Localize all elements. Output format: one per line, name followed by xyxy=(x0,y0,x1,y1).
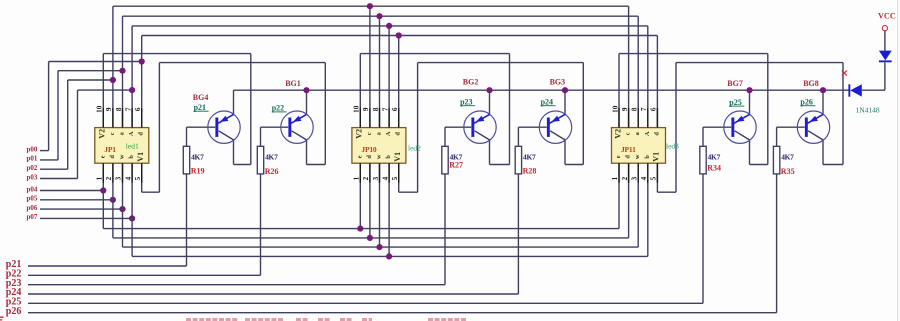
svg-text:3: 3 xyxy=(630,176,638,180)
svg-text:4: 4 xyxy=(124,176,132,180)
junction p00-JP1 pin xyxy=(139,58,145,64)
svg-text:BG1: BG1 xyxy=(285,79,301,88)
svg-text:w: w xyxy=(118,154,125,159)
wire JP10 pin5 bracket bottom xyxy=(399,191,418,193)
connector JP1 (LED display header) xyxy=(95,128,149,164)
svg-text:V1: V1 xyxy=(652,152,661,162)
wire JP1 pin5 over-wire xyxy=(159,62,325,64)
svg-text:8: 8 xyxy=(630,107,638,111)
wire BG4 collector U bottom xyxy=(234,164,251,166)
resistor R27 4K7 xyxy=(442,146,448,174)
wire base of BG3 xyxy=(518,126,546,128)
svg-text:led3: led3 xyxy=(666,142,679,151)
svg-text:R27: R27 xyxy=(449,160,463,169)
wire JP11 pin3 vertical down xyxy=(637,163,639,247)
resistor R35 4K7 xyxy=(773,146,779,174)
pin 7 stub of JP11 xyxy=(647,108,649,128)
svg-text:R28: R28 xyxy=(523,166,537,175)
wire collector riser x=325.3 xyxy=(324,63,326,165)
wire JP10 pin3 vertical down xyxy=(379,163,381,247)
wire JP10 pin5 over-wire xyxy=(418,62,584,64)
svg-text:9: 9 xyxy=(621,107,629,111)
wire p24 horizontal xyxy=(28,293,518,295)
pin 2 stub of JP11 xyxy=(628,163,630,183)
wire lower bus 1 (segment) xyxy=(103,228,619,230)
transistor BG3 (PNP) xyxy=(539,111,571,143)
svg-text:c: c xyxy=(109,132,116,135)
svg-text:5: 5 xyxy=(650,176,658,180)
wire p06 horizontal xyxy=(40,208,123,210)
wire JP11 pin5 bracket riser xyxy=(675,63,677,193)
svg-text:7: 7 xyxy=(124,107,132,111)
pin 6 stub of JP11 xyxy=(656,108,658,128)
wire JP1 pin4 vertical down xyxy=(131,163,133,256)
svg-text:d: d xyxy=(138,132,145,136)
resistor R26 4K7 xyxy=(257,146,263,174)
pin 10 stub of JP10 xyxy=(359,108,361,128)
wire R27 bottom lead xyxy=(444,174,446,285)
svg-text:p23: p23 xyxy=(460,97,472,106)
pin 10 stub of JP1 xyxy=(102,108,104,128)
svg-text:2: 2 xyxy=(105,176,113,180)
wire BG4 collector drop xyxy=(233,140,235,165)
junction p04-JP1 pin1 xyxy=(100,187,106,193)
svg-text:e: e xyxy=(99,155,106,158)
caption text (clipped at bottom) xyxy=(186,318,191,321)
wire segment-bus c (top bus 3) xyxy=(132,25,648,27)
wire collector riser x=843.0 xyxy=(842,63,844,165)
svg-text:p00: p00 xyxy=(27,145,38,153)
svg-text:p24: p24 xyxy=(541,97,553,106)
wire segment-bus a (top bus 1) xyxy=(113,5,629,7)
wire p05 horizontal xyxy=(40,199,113,201)
svg-text:p01: p01 xyxy=(27,155,38,163)
svg-text:4: 4 xyxy=(640,176,648,180)
wire collector riser x=767.8 xyxy=(767,54,769,165)
pin 1 stub of JP1 xyxy=(102,163,104,183)
wire BG7 collector U bottom xyxy=(750,164,768,166)
svg-text:p26: p26 xyxy=(800,97,812,106)
wire JP1 pin7 vertical from bus 3 xyxy=(131,26,133,128)
junction lower bus-JP10 pin1 xyxy=(357,226,363,232)
wire JP10 pin4 vertical down xyxy=(388,163,390,256)
wire p25 horizontal xyxy=(28,302,703,304)
pin 7 stub of JP1 xyxy=(131,108,133,128)
wire JP10 pin7 vertical from bus 3 xyxy=(388,26,390,128)
pin 5 stub of JP10 xyxy=(398,163,400,183)
junction p05-JP1 pin2 xyxy=(110,197,116,203)
svg-text:d: d xyxy=(625,155,632,159)
wire VCC to diode D1 xyxy=(884,31,886,51)
svg-text:p03: p03 xyxy=(27,173,38,181)
wire JP11 pin1 vertical down xyxy=(618,163,620,228)
svg-text:VCC: VCC xyxy=(878,12,896,21)
wire collector riser x=509.5 xyxy=(509,54,511,165)
svg-text:b: b xyxy=(128,155,135,159)
wire segment-bus d (top bus 4) xyxy=(142,35,658,37)
svg-text:V1: V1 xyxy=(393,152,402,162)
svg-text:5: 5 xyxy=(134,176,142,180)
transistor BG4 (PNP) xyxy=(208,111,240,143)
wire R35 bottom lead xyxy=(776,174,778,313)
connector JP11 (LED display header) xyxy=(612,128,666,164)
svg-text:JP1: JP1 xyxy=(104,145,116,154)
wire R28 bottom lead xyxy=(517,174,519,294)
svg-text:JP11: JP11 xyxy=(621,145,636,154)
svg-text:6: 6 xyxy=(134,107,142,111)
wire JP10 pin6 vertical from bus 4 xyxy=(398,36,400,128)
junction bus2-JP10 xyxy=(376,13,382,19)
svg-text:R19: R19 xyxy=(191,167,205,176)
wire base of BG2 xyxy=(445,126,471,128)
svg-text:1: 1 xyxy=(611,176,619,180)
wire JP1 pin5 bracket bottom xyxy=(142,191,160,193)
pin 8 stub of JP11 xyxy=(637,108,639,128)
pin 1 stub of JP11 xyxy=(618,163,620,183)
svg-text:c: c xyxy=(625,132,632,135)
wire JP11 pin10 to collector riser xyxy=(619,53,768,55)
svg-text:b: b xyxy=(385,155,392,159)
svg-text:d: d xyxy=(653,132,660,136)
wire BG3 emitter riser xyxy=(564,90,566,114)
wire JP11 pin5 bracket bottom xyxy=(657,191,676,193)
wire BG1 emitter riser xyxy=(306,90,308,114)
svg-text:p22: p22 xyxy=(272,104,284,113)
wire BG8 collector U bottom xyxy=(823,164,843,166)
svg-text:6: 6 xyxy=(391,107,399,111)
wire collector riser x=250.8 xyxy=(250,54,252,165)
svg-text:A: A xyxy=(644,131,651,136)
wire BG1 collector drop xyxy=(306,140,308,165)
junction emitter bus-BG1 xyxy=(303,87,309,93)
svg-text:V2: V2 xyxy=(355,129,364,139)
wire BG8 emitter riser xyxy=(822,90,824,114)
svg-text:10: 10 xyxy=(353,105,361,113)
wire p02 horizontal xyxy=(40,168,68,170)
wire p21 horizontal xyxy=(28,265,187,267)
svg-text:9: 9 xyxy=(362,107,370,111)
wire emitter bus to diode xyxy=(234,89,850,91)
wire p23 horizontal xyxy=(28,284,445,286)
wire R35 top lead xyxy=(776,127,778,146)
svg-text:8: 8 xyxy=(115,107,123,111)
resistor R34 4K7 xyxy=(700,146,706,174)
pin 2 stub of JP1 xyxy=(112,163,114,183)
pin 5 stub of JP1 xyxy=(141,163,143,183)
junction lower bus-JP10 pin4 xyxy=(386,253,392,259)
pin 6 stub of JP10 xyxy=(398,108,400,128)
svg-text:1: 1 xyxy=(353,176,361,180)
wire lower bus 3 (segment) xyxy=(123,246,639,248)
svg-text:p04: p04 xyxy=(27,185,38,193)
transistor BG8 (PNP) xyxy=(797,111,829,143)
wire D1 to D2 anode xyxy=(862,89,885,91)
svg-text:w: w xyxy=(375,154,382,159)
wire p02 riser xyxy=(67,80,69,169)
svg-text:4K7: 4K7 xyxy=(265,152,278,161)
wire JP1 pin5 vertical xyxy=(141,163,143,192)
svg-text:p05: p05 xyxy=(27,195,38,203)
svg-text:7: 7 xyxy=(640,107,648,111)
svg-text:1N4148: 1N4148 xyxy=(856,106,880,115)
svg-text:p25: p25 xyxy=(729,98,741,107)
wire BG3 collector U bottom xyxy=(565,164,583,166)
svg-text:2: 2 xyxy=(362,176,370,180)
power port VCC xyxy=(878,12,896,31)
wire R19 bottom lead xyxy=(186,174,188,266)
wire JP11 pin4 vertical down xyxy=(647,163,649,256)
svg-text:8: 8 xyxy=(372,107,380,111)
wire JP10 pin10 vertical xyxy=(359,54,361,128)
junction emitter bus-BG7 xyxy=(746,87,752,93)
junction p03-JP1 pin xyxy=(129,87,135,93)
wire R34 top lead xyxy=(702,127,704,146)
wire JP10 pin2 vertical down xyxy=(369,163,371,238)
wire D1 cathode down xyxy=(884,62,886,90)
wire JP10 pin10 to collector riser xyxy=(360,53,509,55)
pin 9 stub of JP1 xyxy=(112,108,114,128)
wire base of BG4 xyxy=(187,126,216,128)
wire BG2 collector U bottom xyxy=(490,164,510,166)
wire lower bus 4 (segment) xyxy=(132,255,648,257)
wire R28 top lead xyxy=(517,127,519,146)
wire p02 upper run xyxy=(68,79,113,81)
wire JP1 pin5 bracket riser xyxy=(158,63,160,193)
wire JP1 pin8 vertical from bus 2 xyxy=(122,16,124,127)
wire BG3 collector drop xyxy=(564,140,566,165)
wire base of BG7 xyxy=(703,126,731,128)
pin 8 stub of JP10 xyxy=(379,108,381,128)
svg-text:V2: V2 xyxy=(98,129,107,139)
svg-text:3: 3 xyxy=(372,176,380,180)
wire p26 horizontal xyxy=(28,312,777,314)
svg-text:A: A xyxy=(385,131,392,136)
transistor BG7 (PNP) xyxy=(724,111,756,143)
wire p03 upper run xyxy=(78,89,133,91)
svg-text:w: w xyxy=(634,154,641,159)
connector JP10 (LED display header) xyxy=(352,128,406,164)
sheet border (right edge) xyxy=(897,0,899,321)
pin 9 stub of JP10 xyxy=(369,108,371,128)
svg-text:V2: V2 xyxy=(613,129,622,139)
wire BG1 collector U bottom xyxy=(307,164,326,166)
pin 4 stub of JP10 xyxy=(388,163,390,183)
svg-text:R34: R34 xyxy=(707,164,721,173)
pin 1 stub of JP10 xyxy=(359,163,361,183)
wire R26 bottom lead xyxy=(260,174,262,275)
wire BG4 emitter riser xyxy=(233,90,235,114)
junction p07-JP1 pin4 xyxy=(129,215,135,221)
svg-text:e: e xyxy=(615,155,622,158)
pin 4 stub of JP11 xyxy=(647,163,649,183)
wire p03 riser xyxy=(77,90,79,178)
wire JP11 pin8 vertical from bus 2 xyxy=(637,16,639,127)
wire R27 top lead xyxy=(444,127,446,146)
pin 6 stub of JP1 xyxy=(141,108,143,128)
svg-text:R26: R26 xyxy=(265,167,279,176)
svg-text:p26: p26 xyxy=(6,306,22,317)
svg-text:4: 4 xyxy=(381,176,389,180)
pin 3 stub of JP10 xyxy=(379,163,381,183)
wire lower bus 2 (segment) xyxy=(113,237,629,239)
wire base of BG1 xyxy=(261,126,289,128)
wire R19 top lead xyxy=(186,127,188,146)
svg-text:c: c xyxy=(366,132,373,135)
wire JP11 pin5 vertical xyxy=(656,163,658,192)
svg-text:BG2: BG2 xyxy=(463,78,479,87)
diode D1 (vertical, anode up) xyxy=(879,51,892,63)
wire p01 riser xyxy=(57,71,59,160)
wire JP1 pin9 vertical from bus 1 xyxy=(112,6,114,127)
svg-text:e: e xyxy=(356,155,363,158)
wire p22 horizontal xyxy=(28,274,261,276)
junction emitter bus-BG3 xyxy=(562,87,568,93)
svg-text:led1: led1 xyxy=(126,142,139,151)
wire JP10 pin8 vertical from bus 2 xyxy=(379,16,381,127)
wire p00 upper run xyxy=(49,61,142,63)
diode D2 1N4148 (horizontal, cathode left) xyxy=(848,84,861,96)
resistor R19 4K7 xyxy=(183,146,189,174)
svg-text:p21: p21 xyxy=(194,103,206,112)
svg-text:p06: p06 xyxy=(27,204,38,212)
resistor R28 4K7 xyxy=(515,146,521,174)
pin 2 stub of JP10 xyxy=(369,163,371,183)
wire BG8 collector drop xyxy=(822,140,824,165)
svg-text:2: 2 xyxy=(621,176,629,180)
svg-text:6: 6 xyxy=(650,107,658,111)
junction bus3-JP10 xyxy=(386,23,392,29)
wire p04 horizontal xyxy=(40,190,103,192)
transistor BG2 (PNP) xyxy=(464,111,496,143)
wire BG7 emitter riser xyxy=(749,90,751,114)
wire JP10 pin1 vertical down xyxy=(359,163,361,228)
wire JP1 pin6 vertical from bus 4 xyxy=(141,36,143,128)
wire p07 horizontal xyxy=(40,217,132,219)
svg-text:d: d xyxy=(395,132,402,136)
svg-text:BG3: BG3 xyxy=(550,78,566,87)
wire JP11 pin2 vertical down xyxy=(628,163,630,238)
wire JP1 pin10 vertical xyxy=(102,54,104,128)
svg-text:4K7: 4K7 xyxy=(523,152,536,161)
wire JP10 pin9 vertical from bus 1 xyxy=(369,6,371,127)
svg-text:BG4: BG4 xyxy=(193,93,209,102)
wire JP11 pin6 vertical from bus 4 xyxy=(656,36,658,128)
junction bus1-JP10 xyxy=(367,3,373,9)
wire BG2 emitter riser xyxy=(489,90,491,114)
svg-text:A: A xyxy=(128,131,135,136)
svg-text:4K7: 4K7 xyxy=(191,152,204,161)
pin 3 stub of JP1 xyxy=(122,163,124,183)
svg-text:BG7: BG7 xyxy=(727,79,743,88)
svg-text:R35: R35 xyxy=(781,167,795,176)
wire p01 horizontal xyxy=(40,159,58,161)
svg-text:JP10: JP10 xyxy=(361,145,376,154)
pin 9 stub of JP11 xyxy=(628,108,630,128)
pin 7 stub of JP10 xyxy=(388,108,390,128)
wire JP11 pin5 over-wire xyxy=(676,62,843,64)
wire JP1 pin3 vertical down xyxy=(122,163,124,247)
junction p01-JP1 pin xyxy=(119,68,125,74)
svg-text:9: 9 xyxy=(105,107,113,111)
svg-text:10: 10 xyxy=(611,105,619,113)
pin 8 stub of JP1 xyxy=(122,108,124,128)
svg-text:1: 1 xyxy=(96,176,104,180)
pin 3 stub of JP11 xyxy=(637,163,639,183)
junction emitter bus-BG8 xyxy=(820,87,826,93)
junction p06-JP1 pin3 xyxy=(119,206,125,212)
wire segment-bus b (top bus 2) xyxy=(123,15,639,17)
pin 5 stub of JP11 xyxy=(656,163,658,183)
wire R26 top lead xyxy=(260,127,262,146)
wire JP1 pin2 vertical down xyxy=(112,163,114,238)
wire BG7 collector drop xyxy=(749,140,751,165)
svg-text:p07: p07 xyxy=(27,213,38,221)
wire JP11 pin9 vertical from bus 1 xyxy=(628,6,630,127)
wire base of BG8 xyxy=(777,126,805,128)
transistor BG1 (PNP) xyxy=(281,111,313,143)
svg-text:4K7: 4K7 xyxy=(781,152,794,161)
wire JP11 pin7 vertical from bus 3 xyxy=(647,26,649,128)
svg-text:4K7: 4K7 xyxy=(708,152,721,161)
junction p02-JP1 pin xyxy=(110,77,116,83)
junction bus4-JP10 xyxy=(396,32,402,38)
svg-text:b: b xyxy=(644,155,651,159)
svg-text:10: 10 xyxy=(96,105,104,113)
wire collector riser x=583.3 xyxy=(582,63,584,165)
junction lower bus-JP10 pin2 xyxy=(367,235,373,241)
svg-text:5: 5 xyxy=(391,176,399,180)
wire R34 bottom lead xyxy=(702,174,704,303)
wire p03 horizontal xyxy=(40,178,78,180)
wire p00 horizontal xyxy=(40,150,49,152)
svg-text:d: d xyxy=(109,155,116,159)
svg-text:BG8: BG8 xyxy=(803,79,819,88)
wire JP1 pin1 vertical down xyxy=(102,163,104,228)
svg-text:p02: p02 xyxy=(27,164,38,172)
svg-text:V1: V1 xyxy=(136,152,145,162)
junction lower bus-JP10 pin3 xyxy=(376,244,382,250)
red mark bottom-left xyxy=(0,317,4,318)
no-ERC marker xyxy=(842,71,847,76)
wire JP10 pin5 bracket riser xyxy=(417,63,419,193)
wire p00 riser xyxy=(48,62,50,151)
wire BG2 collector drop xyxy=(489,140,491,165)
pin 10 stub of JP11 xyxy=(618,108,620,128)
svg-text:3: 3 xyxy=(115,176,123,180)
svg-text:d: d xyxy=(366,155,373,159)
junction emitter bus-BG2 xyxy=(486,87,492,93)
svg-text:7: 7 xyxy=(381,107,389,111)
pin 4 stub of JP1 xyxy=(131,163,133,183)
svg-text:led2: led2 xyxy=(408,144,421,153)
wire p01 upper run xyxy=(58,70,123,72)
wire JP11 pin10 vertical xyxy=(618,54,620,128)
wire JP10 pin5 vertical xyxy=(398,163,400,192)
wire JP1 pin10 to collector riser xyxy=(103,53,251,55)
